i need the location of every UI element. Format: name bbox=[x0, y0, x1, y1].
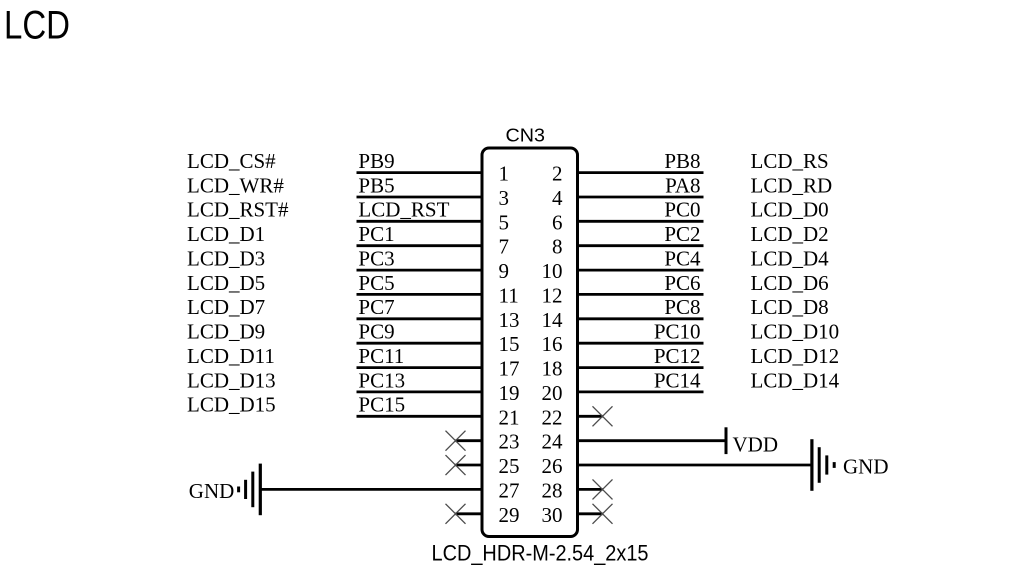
wire pin 30 stub bbox=[578, 512, 603, 515]
svg-text:LCD_RST#: LCD_RST# bbox=[187, 198, 289, 222]
svg-text:10: 10 bbox=[542, 259, 563, 283]
svg-text:LCD_RST: LCD_RST bbox=[358, 198, 449, 222]
svg-text:6: 6 bbox=[552, 210, 563, 234]
svg-text:7: 7 bbox=[499, 235, 510, 259]
svg-text:LCD_D14: LCD_D14 bbox=[751, 368, 840, 392]
wire pin 19 to net PC13 bbox=[357, 390, 483, 393]
wire pin 4 to net PA8 bbox=[578, 196, 704, 199]
svg-text:PA8: PA8 bbox=[665, 173, 700, 197]
svg-text:PB5: PB5 bbox=[358, 173, 394, 197]
wire pin 17 to net PC11 bbox=[357, 366, 483, 369]
svg-text:PC13: PC13 bbox=[358, 368, 405, 392]
svg-text:LCD_D4: LCD_D4 bbox=[751, 247, 830, 271]
svg-text:19: 19 bbox=[499, 381, 520, 405]
svg-text:20: 20 bbox=[542, 381, 563, 405]
svg-text:9: 9 bbox=[499, 259, 510, 283]
wire pin 21 to net PC15 bbox=[357, 415, 483, 418]
svg-text:PC10: PC10 bbox=[654, 320, 701, 344]
no-connect X pin 22 bbox=[593, 406, 613, 426]
wire pin 2 to net PB8 bbox=[578, 171, 704, 174]
svg-text:LCD: LCD bbox=[4, 4, 70, 48]
svg-text:25: 25 bbox=[499, 454, 520, 478]
svg-text:GND: GND bbox=[189, 479, 235, 503]
svg-text:26: 26 bbox=[542, 454, 563, 478]
svg-text:21: 21 bbox=[499, 405, 520, 429]
wire pin 29 stub bbox=[456, 512, 483, 515]
svg-text:PC9: PC9 bbox=[358, 320, 394, 344]
wire pin 7 to net PC1 bbox=[357, 244, 483, 247]
svg-text:PC2: PC2 bbox=[664, 222, 700, 246]
svg-text:LCD_D3: LCD_D3 bbox=[187, 247, 265, 271]
svg-text:PC15: PC15 bbox=[358, 393, 405, 417]
svg-text:PC0: PC0 bbox=[664, 198, 700, 222]
svg-text:LCD_RD: LCD_RD bbox=[751, 173, 833, 197]
wire pin 13 to net PC7 bbox=[357, 317, 483, 320]
no-connect X pin 29 bbox=[446, 504, 466, 524]
no-connect X pin 23 bbox=[446, 431, 466, 451]
svg-text:LCD_D7: LCD_D7 bbox=[187, 295, 265, 319]
svg-text:VDD: VDD bbox=[733, 433, 779, 457]
wire pin 3 to net PB5 bbox=[357, 196, 483, 199]
svg-text:3: 3 bbox=[499, 186, 510, 210]
svg-text:LCD_D1: LCD_D1 bbox=[187, 222, 265, 246]
wire pin 6 to net PC0 bbox=[578, 220, 704, 223]
svg-text:LCD_HDR-M-2.54_2x15: LCD_HDR-M-2.54_2x15 bbox=[432, 541, 649, 566]
svg-text:2: 2 bbox=[552, 162, 563, 186]
svg-text:LCD_CS#: LCD_CS# bbox=[187, 149, 276, 173]
wire pin 27 to GND bbox=[260, 488, 482, 491]
svg-text:PC5: PC5 bbox=[358, 271, 394, 295]
svg-text:PC11: PC11 bbox=[358, 344, 404, 368]
power symbol VDD bbox=[725, 427, 728, 454]
svg-text:24: 24 bbox=[542, 430, 564, 454]
svg-text:PC12: PC12 bbox=[654, 344, 701, 368]
svg-text:LCD_D12: LCD_D12 bbox=[751, 344, 840, 368]
wire pin 10 to net PC4 bbox=[578, 269, 704, 272]
wire pin 23 stub bbox=[456, 439, 483, 442]
wire pin 16 to net PC10 bbox=[578, 342, 704, 345]
ground symbol (left) bbox=[239, 464, 261, 516]
svg-text:5: 5 bbox=[499, 210, 510, 234]
svg-text:18: 18 bbox=[542, 357, 563, 381]
svg-text:28: 28 bbox=[542, 478, 563, 502]
wire pin 18 to net PC12 bbox=[578, 366, 704, 369]
wire pin 26 to GND bbox=[578, 464, 812, 467]
connector CN3 body bbox=[482, 148, 578, 537]
svg-text:PB8: PB8 bbox=[664, 149, 700, 173]
wire pin 1 to net PB9 bbox=[357, 171, 483, 174]
svg-text:LCD_D8: LCD_D8 bbox=[751, 295, 829, 319]
svg-text:PC1: PC1 bbox=[358, 222, 394, 246]
svg-text:CN3: CN3 bbox=[506, 126, 546, 146]
svg-text:13: 13 bbox=[499, 308, 520, 332]
svg-text:LCD_RS: LCD_RS bbox=[751, 149, 829, 173]
svg-text:8: 8 bbox=[552, 235, 563, 259]
wire pin 20 to net PC14 bbox=[578, 390, 704, 393]
ground symbol (right) bbox=[812, 439, 834, 491]
wire pin 12 to net PC6 bbox=[578, 293, 704, 296]
wire pin 24 to VDD bbox=[578, 439, 727, 442]
wire pin 14 to net PC8 bbox=[578, 317, 704, 320]
no-connect X pin 30 bbox=[593, 504, 613, 524]
wire pin 28 stub bbox=[578, 488, 603, 491]
svg-text:16: 16 bbox=[542, 332, 563, 356]
svg-text:LCD_D10: LCD_D10 bbox=[751, 320, 840, 344]
svg-text:17: 17 bbox=[499, 357, 520, 381]
svg-text:PB9: PB9 bbox=[358, 149, 394, 173]
wire pin 22 stub bbox=[578, 415, 603, 418]
svg-text:LCD_WR#: LCD_WR# bbox=[187, 173, 284, 197]
wire pin 25 stub bbox=[456, 464, 483, 467]
svg-text:PC8: PC8 bbox=[664, 295, 700, 319]
svg-text:LCD_D9: LCD_D9 bbox=[187, 320, 265, 344]
svg-text:15: 15 bbox=[499, 332, 520, 356]
svg-text:4: 4 bbox=[552, 186, 563, 210]
svg-text:12: 12 bbox=[542, 283, 563, 307]
no-connect X pin 25 bbox=[446, 455, 466, 475]
svg-text:PC6: PC6 bbox=[664, 271, 700, 295]
svg-text:PC7: PC7 bbox=[358, 295, 394, 319]
wire pin 9 to net PC3 bbox=[357, 269, 483, 272]
svg-text:PC14: PC14 bbox=[654, 368, 701, 392]
svg-text:27: 27 bbox=[499, 478, 520, 502]
svg-text:LCD_D6: LCD_D6 bbox=[751, 271, 829, 295]
wire pin 8 to net PC2 bbox=[578, 244, 704, 247]
wire pin 15 to net PC9 bbox=[357, 342, 483, 345]
wire pin 5 to net LCD_RST bbox=[357, 220, 483, 223]
svg-text:LCD_D15: LCD_D15 bbox=[187, 393, 276, 417]
svg-text:29: 29 bbox=[499, 503, 520, 527]
svg-text:GND: GND bbox=[843, 455, 889, 479]
svg-text:PC4: PC4 bbox=[664, 247, 701, 271]
svg-text:LCD_D2: LCD_D2 bbox=[751, 222, 829, 246]
no-connect X pin 28 bbox=[593, 479, 613, 499]
svg-text:1: 1 bbox=[499, 162, 510, 186]
svg-text:LCD_D5: LCD_D5 bbox=[187, 271, 265, 295]
svg-text:11: 11 bbox=[499, 283, 519, 307]
svg-text:22: 22 bbox=[542, 405, 563, 429]
wire pin 11 to net PC5 bbox=[357, 293, 483, 296]
svg-text:14: 14 bbox=[542, 308, 564, 332]
svg-text:LCD_D13: LCD_D13 bbox=[187, 368, 276, 392]
svg-text:30: 30 bbox=[542, 503, 563, 527]
svg-text:23: 23 bbox=[499, 430, 520, 454]
svg-text:PC3: PC3 bbox=[358, 247, 394, 271]
svg-text:LCD_D0: LCD_D0 bbox=[751, 198, 829, 222]
svg-text:LCD_D11: LCD_D11 bbox=[187, 344, 275, 368]
